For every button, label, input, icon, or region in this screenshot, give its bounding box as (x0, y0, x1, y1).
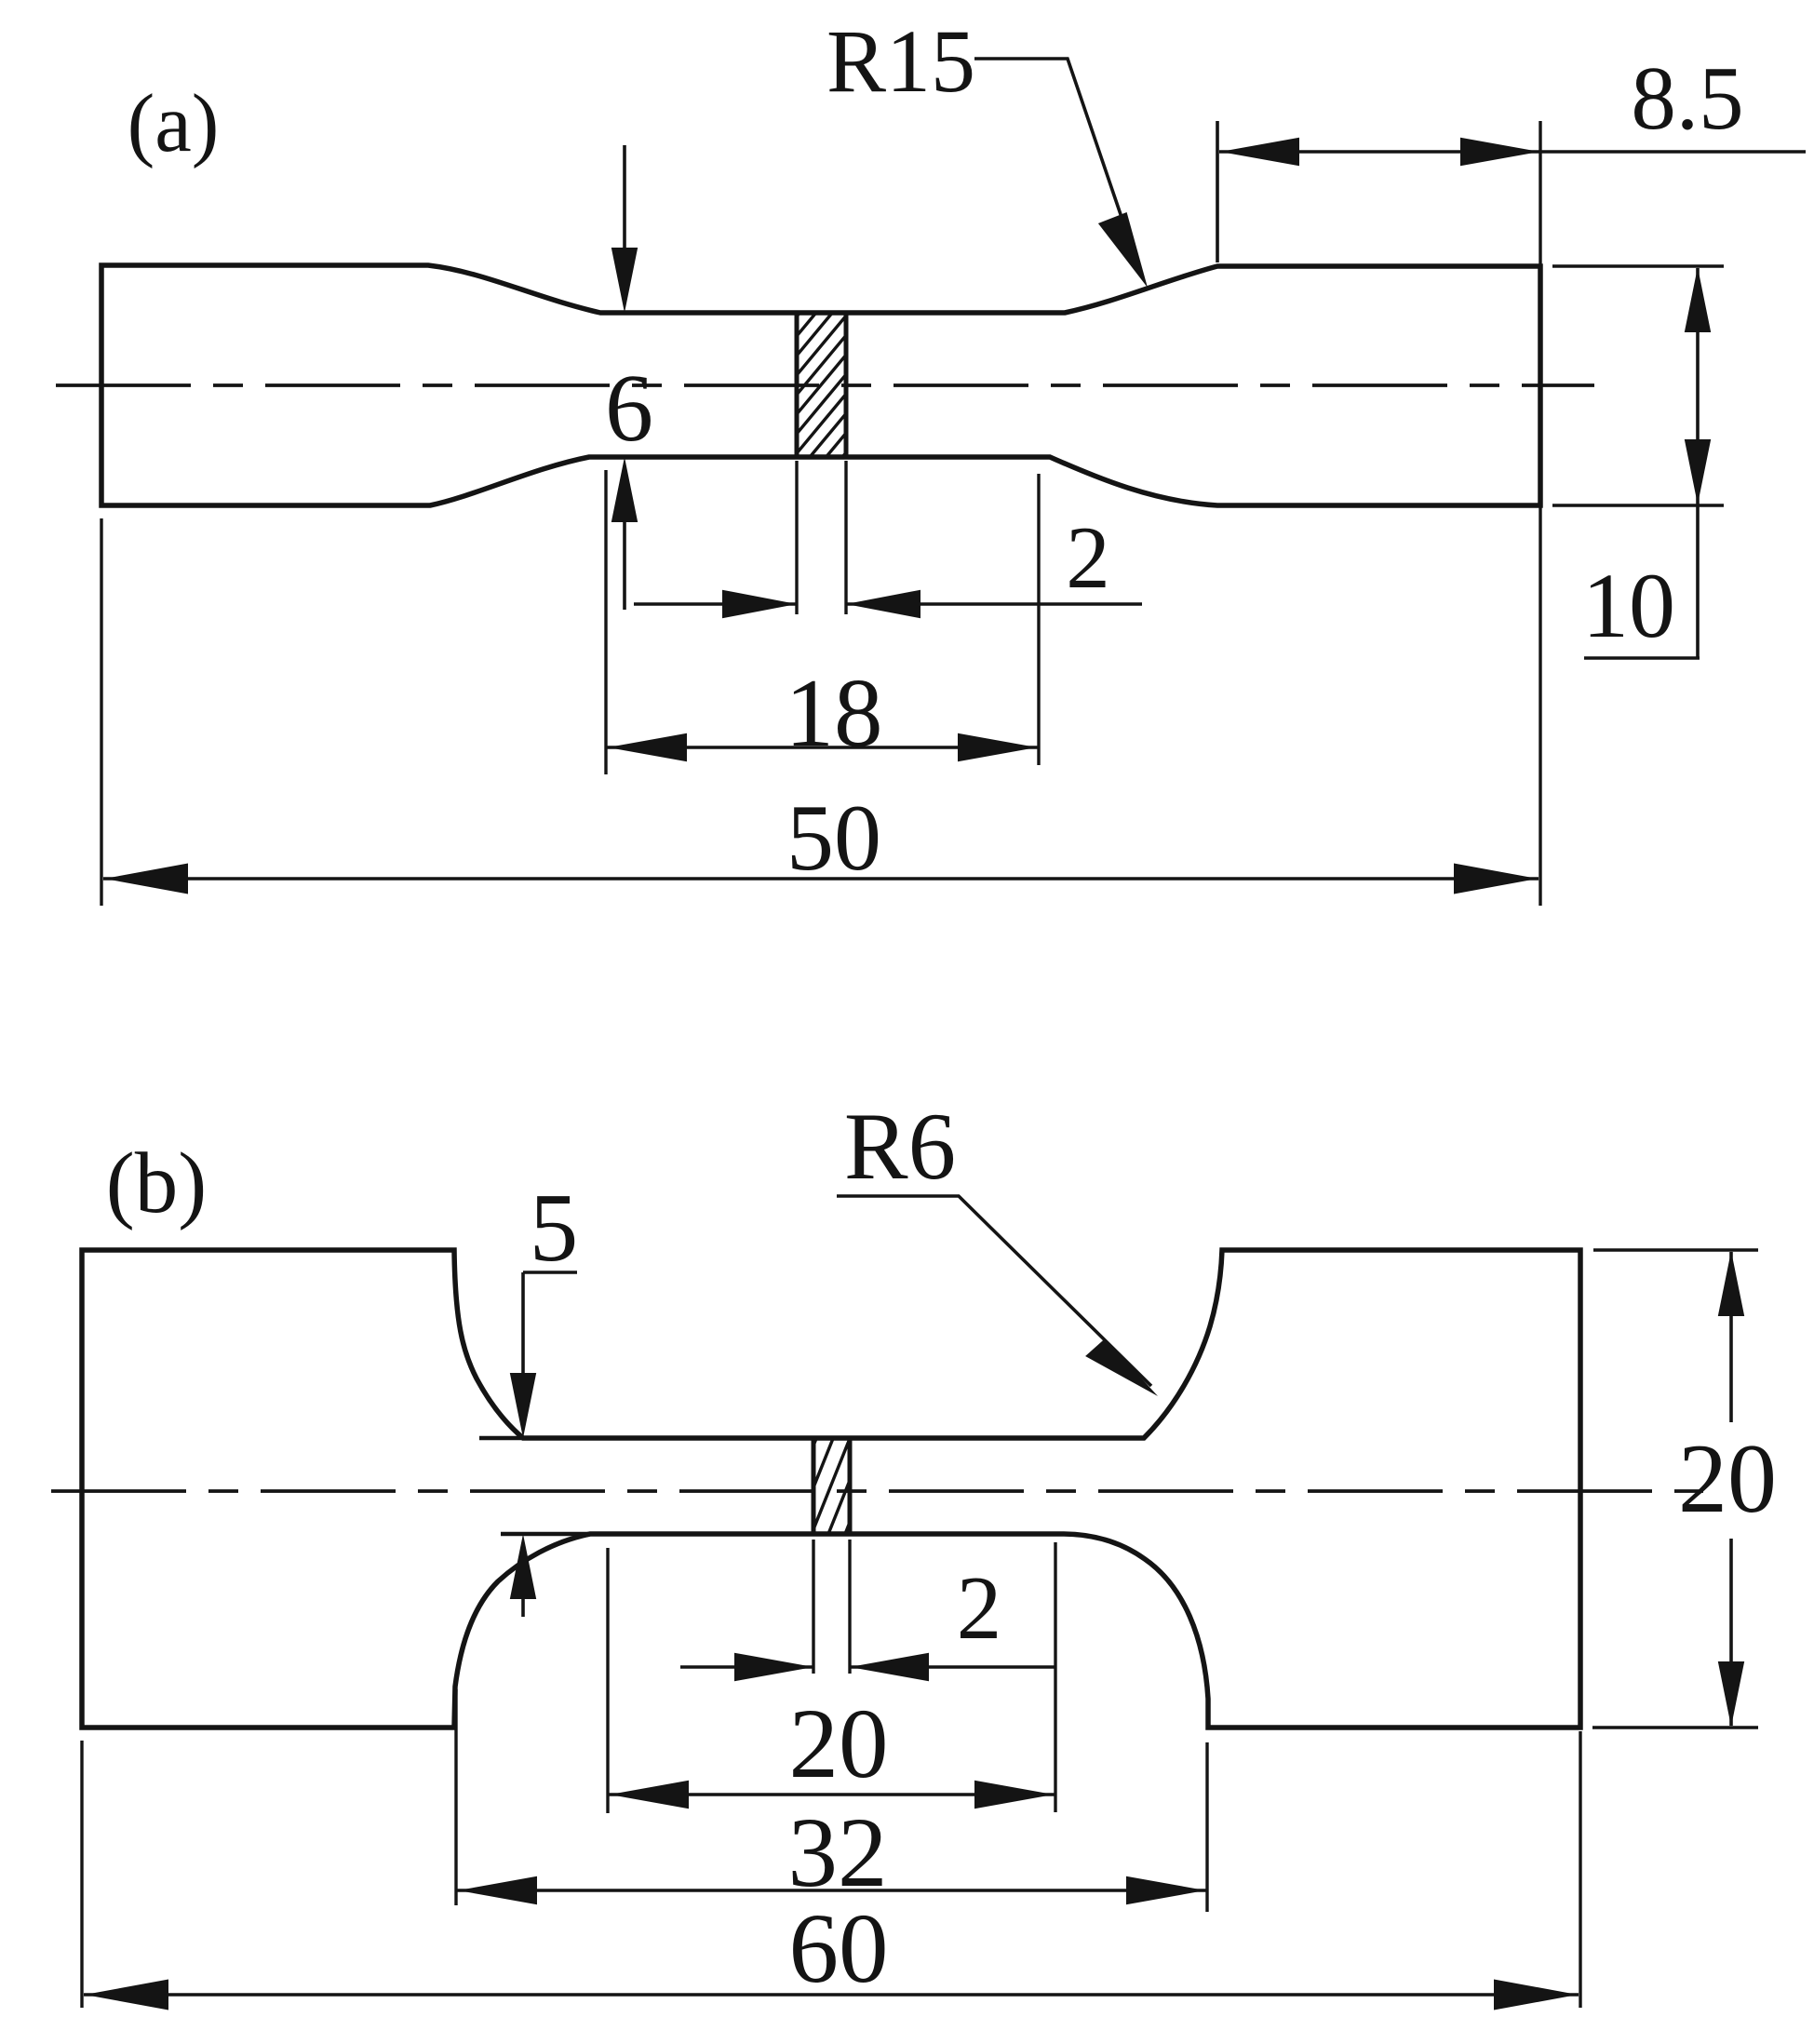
arrowhead 20g right (974, 1781, 1054, 1809)
svg-text:5: 5 (530, 1173, 579, 1282)
arrowhead 10 top (1685, 267, 1711, 332)
gauge bottom line overshoot (b) (501, 1532, 596, 1537)
svg-text:R6: R6 (844, 1094, 956, 1200)
extension line 20g left (606, 1548, 609, 1813)
arrowhead 32 right (1126, 1876, 1205, 1905)
extension line 60 left (80, 1741, 83, 2008)
dimension line 8.5 (1219, 150, 1806, 154)
svg-text:6: 6 (605, 355, 653, 462)
extension line 10 bottom (1552, 504, 1724, 506)
dimension line 20h lower part (1729, 1539, 1733, 1726)
arrowhead 2a left (722, 590, 797, 619)
dimension 6 (a) (605, 145, 653, 610)
extension line 32 right (1205, 1742, 1208, 1912)
leader tick 5 (523, 1271, 577, 1274)
dimension line 2b right part (850, 1665, 1055, 1669)
arrowhead R6 leader (1085, 1338, 1158, 1396)
dimension 2 (a) (634, 461, 1142, 618)
arrowhead R15 leader (1098, 212, 1148, 288)
dimension line 60 (84, 1993, 1579, 1997)
arrowhead 60 left (85, 1980, 168, 2010)
arrowhead 18 left (608, 733, 687, 762)
arrowhead 60 right (1494, 1980, 1578, 2010)
extension line 2b left (812, 1540, 814, 1674)
extension line 20h top (1593, 1248, 1758, 1251)
svg-text:2: 2 (957, 1558, 1002, 1658)
extension line 50 right / specimen end (1539, 121, 1541, 906)
arrow tail 5 lower (521, 1590, 525, 1617)
extension line 2b right (848, 1540, 851, 1674)
arrowhead 5 upper (510, 1373, 536, 1438)
arrowhead 2a right (846, 590, 920, 619)
centerline (a) (56, 383, 1594, 387)
arrow tail 6 lower (623, 521, 626, 610)
arrowhead 10 bottom (1685, 439, 1711, 504)
dimension line 50 (103, 877, 1539, 881)
svg-text:(b): (b) (106, 1136, 207, 1231)
dimension line 2a right part (846, 602, 1142, 606)
gauge hatch strip (a) (787, 245, 856, 523)
arrowhead 50 left (104, 864, 188, 894)
svg-text:20: 20 (1678, 1424, 1777, 1533)
svg-text:(a): (a) (128, 78, 220, 169)
dimension R15 (a) (826, 11, 1148, 288)
dimension line 2b left part (680, 1665, 813, 1669)
extension line 10 top (1552, 264, 1724, 267)
extension line 18 right (1037, 474, 1040, 765)
dimension R6 (b) (837, 1094, 1158, 1396)
extension line 50 left (100, 518, 102, 906)
svg-text:8.5: 8.5 (1631, 48, 1743, 148)
arrow tail 5 upper (521, 1272, 525, 1378)
arrowhead 32 left (458, 1876, 537, 1905)
svg-text:60: 60 (789, 1894, 889, 2004)
arrowhead 8.5 right (1460, 138, 1539, 167)
svg-text:2: 2 (1066, 508, 1110, 607)
svg-text:10: 10 (1582, 554, 1675, 657)
arrowhead 50 right (1454, 864, 1538, 894)
extension line 32 left (454, 1689, 457, 1905)
specimen (b) outline (82, 1250, 1580, 1728)
svg-text:18: 18 (786, 658, 883, 767)
arrow tail 6 upper (623, 145, 626, 270)
svg-text:20: 20 (789, 1689, 889, 1799)
dimension 5 (b) (479, 1173, 596, 1617)
arrowhead 20h bottom (1718, 1661, 1744, 1727)
dimension 2 (b) (680, 1540, 1055, 1681)
arrowhead 18 right (958, 733, 1037, 762)
extension line 20g right (1054, 1542, 1056, 1812)
dimension line 2a left part (634, 602, 797, 606)
arrowhead 2b left (734, 1653, 813, 1682)
dimension line 20g (608, 1793, 1055, 1796)
dimension 50 (a) (101, 121, 1540, 906)
specimen (a) outline (101, 265, 1540, 505)
arrowhead 6 lower (611, 457, 638, 522)
extension line 8.5 left (1216, 121, 1219, 262)
dimension 8.5 (a) (1217, 48, 1806, 262)
arrowhead 20h top (1718, 1251, 1744, 1316)
dimension line 18 (606, 746, 1039, 749)
dimension line 32 (456, 1889, 1207, 1892)
dimension 18 (a) (606, 470, 1039, 774)
dimension 20 gauge (b) (608, 1542, 1055, 1813)
centerline (b) (51, 1489, 1703, 1493)
extension line 60 right (1579, 1731, 1581, 2008)
gauge hatch strip (b) (799, 1315, 866, 1692)
extension line 2a left (795, 461, 798, 614)
svg-text:R15: R15 (826, 11, 975, 111)
dimension line 20h upper part (1729, 1252, 1733, 1422)
arrowhead 6 upper (611, 248, 638, 313)
arrowhead 5 lower (510, 1534, 536, 1599)
arrowhead 8.5 left (1220, 138, 1299, 167)
extension line 2a right (844, 461, 847, 614)
extension line 20h bottom (1592, 1726, 1758, 1728)
leader line R6 (837, 1196, 1151, 1386)
arrowhead 2b right (850, 1653, 929, 1682)
leader underline 10 (1584, 656, 1700, 660)
arrowhead 20g left (610, 1781, 689, 1809)
dimension 60 (b) (82, 1731, 1580, 2010)
dimension line 10 vertical (1696, 268, 1700, 658)
extension line 18 left (604, 470, 607, 774)
svg-text:50: 50 (786, 786, 881, 891)
dimension 32 (b) (456, 1689, 1207, 1912)
dimension 10 (a) (1552, 266, 1724, 658)
dimension 20 height (b) (1592, 1250, 1777, 1728)
leader line R15 (974, 59, 1141, 275)
gauge top line overshoot (b) (479, 1436, 527, 1441)
